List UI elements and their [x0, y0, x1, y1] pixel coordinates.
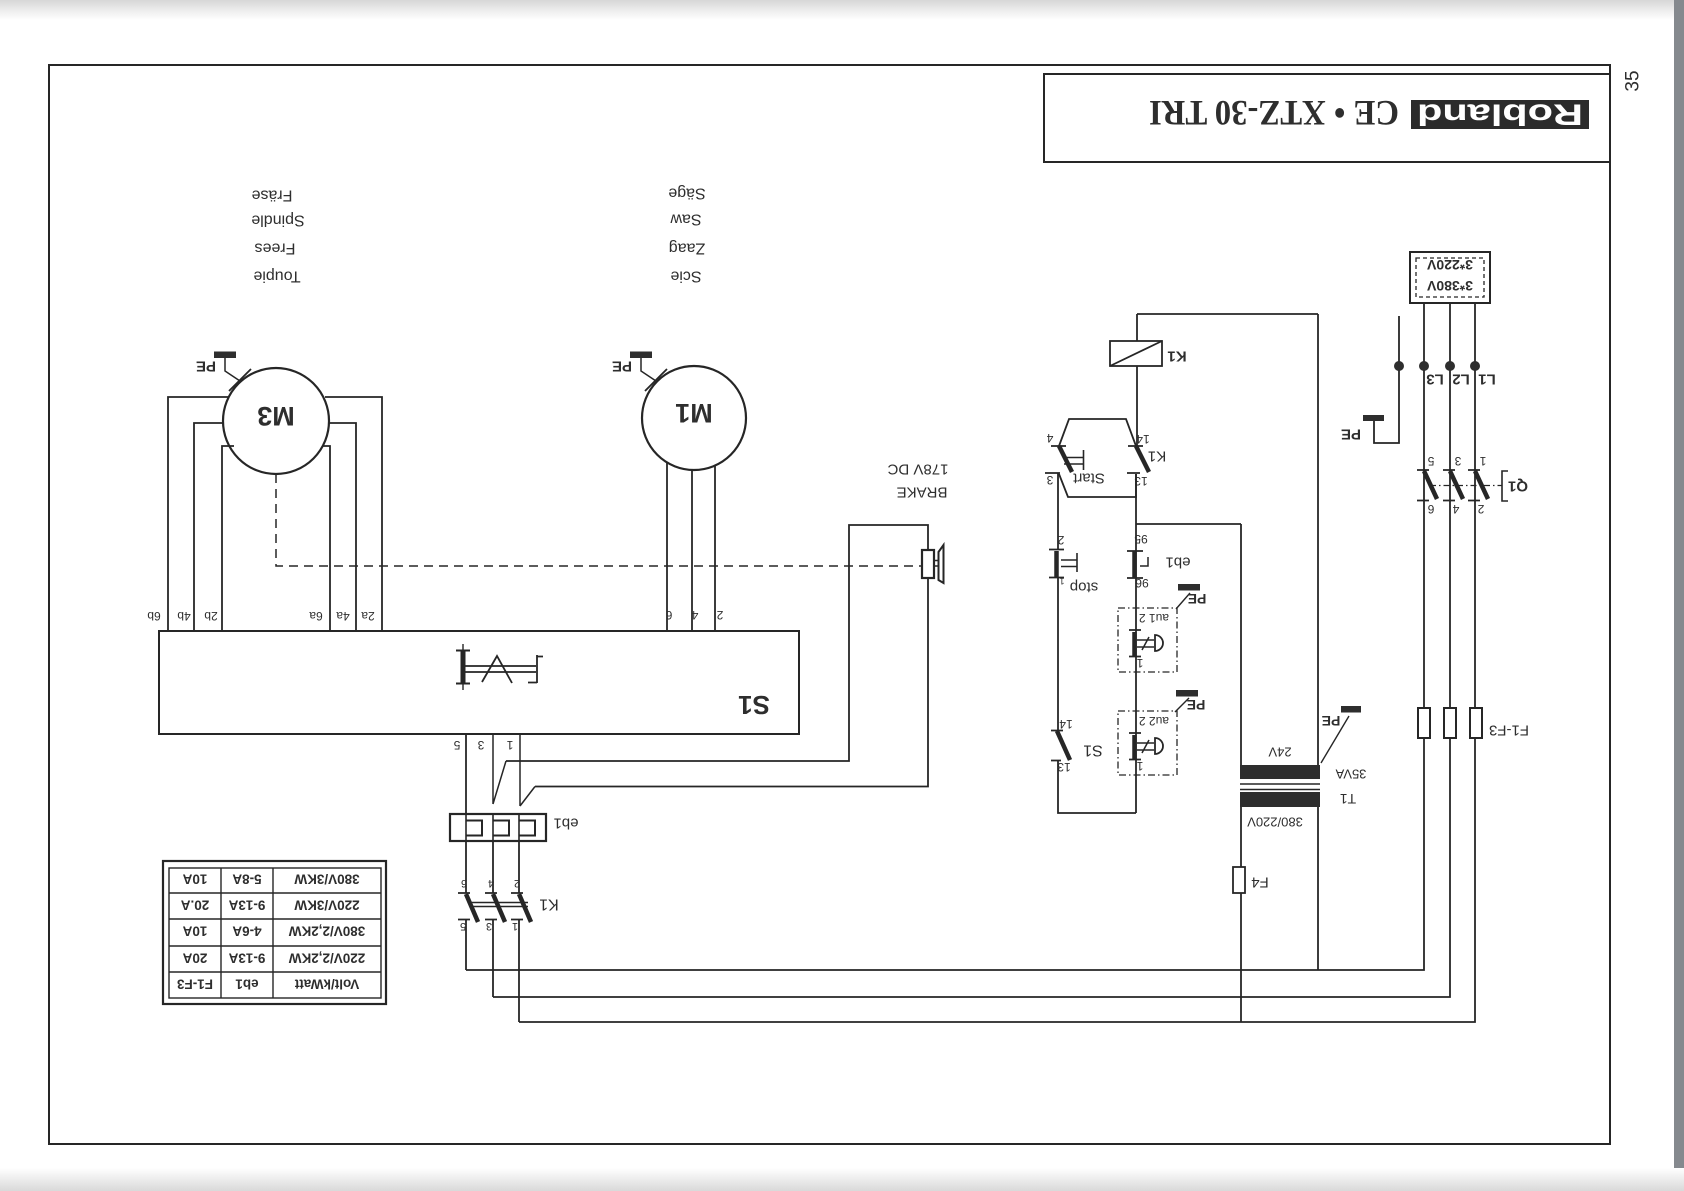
table row 380V/2,2KW	[182, 924, 365, 939]
wire M3 4a	[329, 423, 356, 631]
contact S1 aux 13-14	[1051, 731, 1070, 761]
svg-text:1: 1	[1059, 576, 1064, 586]
svg-text:14: 14	[1136, 432, 1150, 446]
svg-text:S1: S1	[1083, 742, 1103, 759]
svg-text:T1: T1	[1340, 791, 1357, 807]
ground PE supply symbol	[1341, 415, 1384, 443]
svg-text:5: 5	[460, 920, 466, 932]
wire M3 4b	[194, 423, 223, 631]
voltage rating box 3*380V 3*220V	[1410, 252, 1490, 303]
svg-text:Frees: Frees	[255, 240, 296, 257]
svg-text:Volt/kWatt: Volt/kWatt	[294, 977, 359, 992]
switch Q1 main isolator	[1417, 470, 1508, 501]
svg-text:Saw: Saw	[670, 211, 702, 228]
svg-text:10A: 10A	[182, 924, 207, 939]
table row 220V/3KW	[180, 898, 359, 913]
wire M3 6a	[322, 446, 330, 631]
svg-text:Fräse: Fräse	[251, 187, 292, 204]
svg-text:au1 2: au1 2	[1139, 611, 1169, 625]
ground PE M3	[196, 352, 251, 392]
svg-text:CE • XTZ-30 TRI: CE • XTZ-30 TRI	[1149, 93, 1399, 133]
wire M3 6b	[168, 397, 229, 631]
svg-text:1: 1	[512, 920, 518, 932]
svg-text:Säge: Säge	[668, 185, 705, 202]
svg-text:Scie: Scie	[670, 268, 701, 285]
node PE junction	[1394, 361, 1404, 371]
fuse F4	[1233, 867, 1245, 893]
motor M3	[223, 368, 329, 474]
svg-text:M1: M1	[675, 398, 713, 428]
svg-text:3*380V: 3*380V	[1426, 278, 1473, 294]
svg-text:380/220V: 380/220V	[1247, 815, 1303, 830]
svg-text:S1: S1	[738, 690, 770, 720]
wire tap S1-1 to brake lower	[520, 734, 535, 806]
svg-text:PE: PE	[196, 358, 216, 375]
svg-text:PE: PE	[1322, 713, 1341, 729]
svg-text:178V DC: 178V DC	[887, 461, 948, 478]
brake magnet Y1	[922, 545, 944, 583]
svg-text:2: 2	[1477, 502, 1484, 516]
start button enclosure hexagon	[1059, 419, 1136, 497]
svg-text:eb1: eb1	[235, 977, 259, 992]
svg-text:95: 95	[1134, 532, 1148, 546]
svg-text:1: 1	[506, 738, 513, 752]
svg-text:3*220V: 3*220V	[1426, 257, 1473, 273]
table row 380V/3KW	[182, 872, 359, 887]
lamp au1	[1118, 608, 1177, 672]
wire start to stop	[1057, 473, 1059, 549]
transformer T1	[1240, 314, 1320, 970]
svg-text:4: 4	[691, 608, 698, 622]
svg-text:PE: PE	[1341, 426, 1361, 443]
svg-text:PE: PE	[1188, 591, 1207, 607]
svg-text:4: 4	[1046, 431, 1053, 445]
svg-text:F4: F4	[1251, 874, 1269, 891]
svg-text:3: 3	[1454, 454, 1461, 468]
svg-text:2: 2	[514, 877, 520, 889]
wire tap S1-3 to brake upper	[493, 734, 506, 804]
svg-text:96: 96	[1135, 576, 1149, 590]
wire M3 2a	[325, 397, 382, 631]
svg-text:220V/3KW: 220V/3KW	[294, 898, 360, 913]
svg-text:K1: K1	[1167, 348, 1186, 365]
svg-text:13: 13	[1057, 760, 1071, 774]
table row 220V/2,2KW	[182, 951, 365, 966]
wire phase L1 (supply to Q1 to fuse F1 to bottom run)	[466, 303, 1424, 970]
svg-text:M3: M3	[257, 401, 295, 431]
svg-text:5: 5	[1427, 454, 1434, 468]
svg-text:K1: K1	[1148, 448, 1166, 465]
ground PE transformer	[1321, 706, 1361, 763]
svg-text:3: 3	[1046, 473, 1053, 487]
ground PE M1	[612, 352, 667, 392]
svg-text:Start: Start	[1072, 470, 1105, 487]
svg-text:L1: L1	[1478, 371, 1496, 388]
motor M1	[642, 366, 746, 470]
svg-text:20A: 20A	[182, 951, 207, 966]
wire M1 2	[714, 465, 716, 631]
wire stop to S1 contact	[1057, 578, 1059, 730]
svg-text:2b: 2b	[204, 609, 218, 623]
lamp au2	[1118, 711, 1177, 775]
wire brake feed upper	[506, 525, 928, 761]
svg-text:220V/2,2KW: 220V/2,2KW	[288, 951, 365, 966]
svg-text:au2 2: au2 2	[1139, 714, 1169, 728]
ratings table	[163, 861, 386, 1004]
wire junction to transformer	[1136, 523, 1241, 525]
svg-text:F1-F3: F1-F3	[1489, 722, 1529, 739]
svg-text:14: 14	[1059, 717, 1073, 731]
svg-text:1: 1	[1479, 454, 1486, 468]
wire brake dashed link from M3	[276, 474, 921, 566]
svg-text:1: 1	[1136, 656, 1143, 670]
svg-text:PE: PE	[1187, 697, 1206, 713]
svg-text:24V: 24V	[1268, 745, 1291, 760]
wire S1-5 down	[465, 734, 467, 814]
node L3 junction	[1470, 361, 1480, 371]
contact K1 aux 13-14	[1127, 446, 1149, 473]
svg-text:2a: 2a	[361, 609, 375, 623]
contact eb1 NC 95-96	[1127, 551, 1148, 578]
svg-text:6: 6	[665, 608, 672, 622]
svg-text:3: 3	[477, 738, 484, 752]
svg-text:BRAKE: BRAKE	[897, 484, 948, 501]
svg-text:9-13A: 9-13A	[228, 951, 265, 966]
svg-text:PE: PE	[612, 358, 632, 375]
pushbutton stop NC contact 1-2	[1049, 550, 1077, 578]
wire phase L3	[519, 303, 1475, 1022]
svg-text:4: 4	[488, 877, 494, 889]
wire control top	[1137, 313, 1318, 315]
fuse F2	[1444, 708, 1456, 738]
svg-text:Toupie: Toupie	[253, 268, 300, 285]
svg-text:4a: 4a	[336, 609, 350, 623]
svg-text:20.A: 20.A	[180, 898, 209, 913]
overload relay eb1	[450, 814, 546, 841]
svg-text:K1: K1	[539, 896, 559, 913]
svg-text:5: 5	[453, 738, 460, 752]
wire control right branch	[1135, 474, 1137, 813]
svg-text:F1-F3: F1-F3	[177, 977, 213, 992]
wire M1 4	[691, 470, 693, 631]
table row header	[177, 977, 360, 992]
svg-text:2: 2	[716, 608, 723, 622]
svg-text:6b: 6b	[147, 609, 161, 623]
svg-text:4: 4	[1452, 502, 1459, 516]
svg-text:4b: 4b	[177, 609, 191, 623]
svg-text:Robland: Robland	[1417, 98, 1583, 131]
node L1 junction	[1419, 361, 1429, 371]
svg-text:35VA: 35VA	[1335, 767, 1366, 782]
wire coil to contact 14	[1136, 366, 1138, 446]
wire phase L2	[493, 303, 1450, 997]
svg-text:5-8A: 5-8A	[232, 872, 262, 887]
svg-text:380V/3KW: 380V/3KW	[294, 872, 360, 887]
svg-text:3: 3	[486, 920, 492, 932]
fuse F1	[1418, 708, 1430, 738]
svg-text:6: 6	[461, 877, 467, 889]
fuse F3	[1470, 708, 1482, 738]
svg-text:stop: stop	[1070, 579, 1098, 596]
wire M3 2b	[222, 446, 234, 631]
svg-text:6: 6	[1427, 502, 1434, 516]
svg-text:Zaag: Zaag	[669, 240, 705, 257]
svg-text:eb1: eb1	[553, 815, 578, 832]
svg-text:L2: L2	[1452, 371, 1470, 388]
svg-text:10A: 10A	[182, 872, 207, 887]
title block	[1044, 74, 1610, 162]
svg-text:4-6A: 4-6A	[232, 924, 262, 939]
wire S1 contact to bottom corner	[1058, 761, 1136, 813]
svg-text:2: 2	[1057, 533, 1064, 547]
ground PE au1	[1176, 584, 1206, 609]
wire F4 to phase	[1240, 893, 1242, 1022]
pushbutton Start NO contact 3-4	[1045, 446, 1084, 473]
svg-text:Q1: Q1	[1508, 478, 1528, 495]
ground PE au2	[1175, 690, 1205, 713]
contactor K1 main contacts	[458, 893, 531, 922]
node L2 junction	[1445, 361, 1455, 371]
svg-text:eb1: eb1	[1165, 554, 1190, 571]
svg-text:6a: 6a	[309, 609, 323, 623]
svg-text:380V/2,2KW: 380V/2,2KW	[288, 924, 365, 939]
switch S1 cam box	[159, 631, 799, 734]
svg-text:9-13A: 9-13A	[228, 898, 265, 913]
svg-text:Spindle: Spindle	[251, 212, 304, 229]
relay coil K1	[1110, 314, 1162, 366]
svg-text:1: 1	[1136, 759, 1143, 773]
wire M1 6	[666, 462, 668, 631]
svg-text:L3: L3	[1426, 371, 1444, 388]
svg-text:35: 35	[1623, 70, 1644, 91]
wire brake feed lower	[535, 578, 928, 787]
wire eb1 to K1 poles	[466, 841, 519, 893]
wire PE supply	[1374, 316, 1399, 443]
